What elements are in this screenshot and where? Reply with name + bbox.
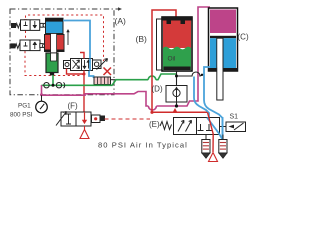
svg-text:(E): (E) [149,120,160,129]
svg-text:(B): (B) [136,34,148,44]
svg-text:Oil: Oil [168,56,177,63]
svg-text:PG1: PG1 [18,103,31,110]
svg-text:(F): (F) [68,102,79,111]
svg-text:(C): (C) [238,33,249,42]
svg-text:80 PSI Air In Typical: 80 PSI Air In Typical [98,141,188,150]
svg-text:800 PSI: 800 PSI [10,112,33,119]
svg-text:(A): (A) [115,16,127,26]
svg-text:(D): (D) [152,85,163,94]
svg-text:S1: S1 [230,114,239,121]
